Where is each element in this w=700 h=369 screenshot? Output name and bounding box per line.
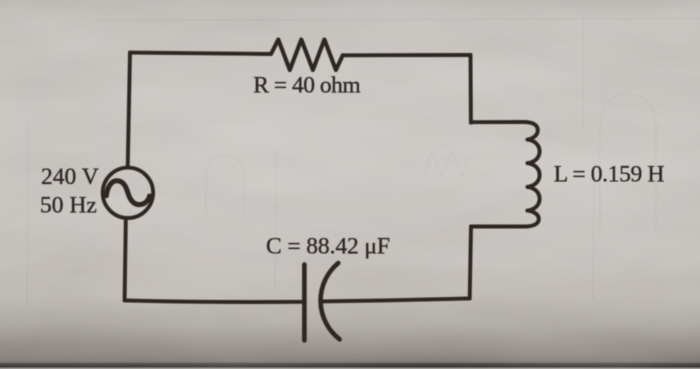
wire right upper	[469, 55, 473, 123]
wire bottom-right segment	[322, 298, 470, 301]
ac source V1 sine symbol	[106, 181, 149, 205]
svg-text:R = 40 ohm: R = 40 ohm	[253, 73, 360, 99]
wire right lower	[470, 227, 471, 299]
wire left upper	[128, 53, 130, 168]
wire top-right segment	[343, 53, 471, 57]
wire top-left segment	[130, 53, 271, 54]
wire left lower	[125, 219, 126, 300]
svg-text:C = 88.42 μF: C = 88.42 μF	[266, 234, 390, 260]
wire bottom-left segment	[125, 300, 305, 302]
svg-text:50 Hz: 50 Hz	[40, 192, 97, 218]
ac source V1 circle	[103, 168, 153, 218]
svg-text:240 V: 240 V	[41, 164, 99, 190]
capacitor C1 straight plate	[302, 265, 307, 341]
svg-text:L = 0.159 H: L = 0.159 H	[554, 162, 665, 188]
resistor R1	[271, 40, 343, 71]
inductor L1	[471, 122, 540, 227]
faint creases and print-through ghosts	[27, 16, 700, 305]
capacitor C1 curved plate	[321, 263, 340, 339]
